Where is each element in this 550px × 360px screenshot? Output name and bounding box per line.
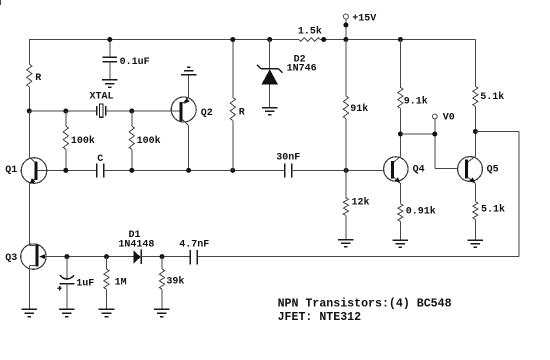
svg-text:Q1: Q1 xyxy=(5,165,17,176)
wire D1 to 4.7nF xyxy=(141,256,190,258)
svg-text:5.1k: 5.1k xyxy=(480,91,504,103)
wire R2 from rail xyxy=(232,40,234,98)
wire cap C to 30nF xyxy=(104,169,285,171)
node rail / 1.5k right xyxy=(321,37,326,42)
wire D2 from rail xyxy=(269,40,271,70)
svg-text:+15V: +15V xyxy=(352,13,376,24)
wire top supply rail left segment xyxy=(29,39,299,41)
node left rail / xtal junction xyxy=(27,109,32,114)
svg-text:1.5k: 1.5k xyxy=(298,25,322,37)
resistor R (no.2) xyxy=(230,98,235,121)
transistor Q5 xyxy=(458,156,483,183)
svg-text:R: R xyxy=(35,73,41,84)
wire 12k to ground xyxy=(345,216,347,240)
node rail / 0.1uF xyxy=(107,37,112,42)
wire Q2 emitter up xyxy=(188,75,190,98)
wire 1M bottom xyxy=(106,289,108,309)
svg-text:C: C xyxy=(97,154,103,165)
svg-text:1N4148: 1N4148 xyxy=(118,239,154,250)
wire 1uF bottom xyxy=(66,284,68,310)
wire xtal line right to Q2 base xyxy=(106,110,180,112)
wire R2 to signal line xyxy=(232,121,234,171)
svg-text:1N746: 1N746 xyxy=(287,63,317,74)
resistor 91k xyxy=(343,96,348,119)
svg-text:Q5: Q5 xyxy=(487,165,499,176)
wire Q1 emitter to Q3 drain xyxy=(28,184,30,245)
wire 0.1uF cap from rail xyxy=(109,40,111,58)
node signal / Q2 collector xyxy=(186,168,191,173)
wire V0 crossbar xyxy=(400,133,434,135)
ground under 1uF xyxy=(59,309,75,316)
svg-text:V0: V0 xyxy=(443,112,455,123)
wire left rail upper (collector Q1 to rail) xyxy=(28,40,30,65)
wire 100k no.1 bottom xyxy=(65,149,67,170)
wire Q1 base to cap C xyxy=(38,169,97,171)
svg-text:12k: 12k xyxy=(352,197,370,209)
svg-text:100k: 100k xyxy=(71,135,95,147)
resistor 1M xyxy=(104,269,109,289)
wire 5.1k no.2 to ground xyxy=(474,219,476,240)
wire left rail to XTAL node xyxy=(28,87,30,111)
wire Q3 source down xyxy=(28,266,30,310)
transistor Q3 (JFET) xyxy=(21,244,46,269)
wire 1M top xyxy=(106,257,108,269)
resistor 9.1k xyxy=(398,87,403,108)
node signal / resistor R2 xyxy=(230,168,235,173)
wire feedback top xyxy=(475,131,519,133)
wire 0.91k to ground xyxy=(399,221,401,240)
svg-text:NPN Transistors:(4) BC548: NPN Transistors:(4) BC548 xyxy=(278,297,452,310)
svg-text:1uF: 1uF xyxy=(76,278,94,289)
resistor 5.1k no.2 xyxy=(473,202,478,220)
node signal / 100k no.2 xyxy=(129,168,134,173)
wire top supply rail right segment xyxy=(320,39,476,41)
svg-text:1M: 1M xyxy=(115,277,127,288)
stray mark top-left corner xyxy=(0,0,2,5)
wire 30nF to Q4 base xyxy=(292,169,384,171)
wire 5.1k no.1 top xyxy=(474,40,476,88)
svg-text:0.91k: 0.91k xyxy=(406,205,436,217)
svg-text:30nF: 30nF xyxy=(276,153,300,164)
terminal V0 xyxy=(432,114,437,168)
transistor Q1 xyxy=(21,157,47,184)
capacitor 4.7nF xyxy=(190,250,197,264)
svg-text:JFET: NTE312: JFET: NTE312 xyxy=(278,311,362,324)
wire 100k no.1 top xyxy=(65,111,67,126)
svg-text:Q4: Q4 xyxy=(413,165,425,176)
wire D2 to ground xyxy=(269,84,271,107)
ground under Q3 xyxy=(22,309,38,316)
svg-text:Q3: Q3 xyxy=(5,253,17,264)
wire 1uF top xyxy=(66,257,68,280)
resistor 1.5k xyxy=(299,38,320,42)
capacitor C xyxy=(97,163,104,177)
capacitor 0.1uF xyxy=(103,57,117,61)
node Q5 collector / feedback xyxy=(473,129,478,134)
wire xtal line left xyxy=(29,110,96,112)
wire 9.1k top xyxy=(399,40,401,88)
svg-text:5.1k: 5.1k xyxy=(481,204,505,216)
node signal / 100k no.1 xyxy=(63,168,68,173)
node gate line / 39k xyxy=(160,254,165,259)
svg-text:0.1uF: 0.1uF xyxy=(120,57,150,68)
wire 39k top xyxy=(161,257,163,269)
capacitor 1uF (polarized) xyxy=(60,275,75,284)
node gate / 1M xyxy=(104,254,109,259)
wire 5.1k no.1 to Q5 collector xyxy=(474,107,476,157)
node rail / 9.1k xyxy=(398,37,403,42)
wire feedback right vertical xyxy=(518,132,520,257)
wire 0.1uF to ground xyxy=(109,62,111,80)
transistor Q2 xyxy=(171,97,196,125)
diode D2 zener 1N746 xyxy=(257,65,282,85)
ground under 12k xyxy=(338,240,354,247)
ground under 5.1k no.2 xyxy=(468,240,484,247)
svg-text:100k: 100k xyxy=(137,135,161,147)
resistor 100k no.1 xyxy=(63,126,68,149)
wire 100k no.2 top xyxy=(131,111,133,126)
node gate / 1uF xyxy=(64,254,69,259)
wire feedback bottom xyxy=(197,256,519,258)
svg-text:4.7nF: 4.7nF xyxy=(179,239,209,250)
svg-text:91k: 91k xyxy=(350,103,368,115)
wire 91k bottom xyxy=(345,119,347,198)
label + of 1uF xyxy=(57,286,61,290)
terminal +15V xyxy=(343,14,348,40)
node xtal / 100k no.2 xyxy=(129,109,134,114)
ground under D2 xyxy=(262,108,278,115)
svg-text:9.1k: 9.1k xyxy=(404,95,428,107)
node rail / R2 xyxy=(230,37,235,42)
wire 9.1k to Q4 collector xyxy=(399,108,401,156)
svg-text:R: R xyxy=(239,108,245,119)
wire Q5 emitter down xyxy=(474,183,476,201)
resistor 39k xyxy=(159,269,164,289)
wire 39k bottom xyxy=(161,289,163,309)
resistor R (left bias) xyxy=(27,64,32,87)
node +15V below terminal xyxy=(343,23,348,28)
node rail / D2 xyxy=(267,37,272,42)
ground under 39k xyxy=(154,309,170,316)
node rail / +15V / 91k xyxy=(343,37,348,42)
crystal XTAL xyxy=(97,104,106,117)
wire Q4 emitter down xyxy=(399,183,401,204)
node xtal / 100k no.1 xyxy=(63,109,68,114)
svg-text:XTAL: XTAL xyxy=(90,92,114,103)
wire Q3 gate line xyxy=(45,256,134,258)
ground under 0.91k xyxy=(393,240,409,247)
transistor Q4 xyxy=(384,157,408,184)
svg-text:39k: 39k xyxy=(166,275,184,287)
ground above Q2 (inverted) xyxy=(181,67,197,74)
ground under 1M xyxy=(99,309,115,316)
resistor 5.1k no.1 xyxy=(473,86,478,106)
wire Q2 collector down xyxy=(188,125,190,170)
resistor 12k xyxy=(343,198,348,216)
node Q4 collector / V0 branch xyxy=(398,132,403,137)
capacitor 30nF xyxy=(285,163,292,177)
ground under 0.1uF xyxy=(102,80,118,87)
wire left rail to Q1 collector xyxy=(28,111,30,157)
wire 91k top xyxy=(345,40,347,96)
wire 100k no.2 bottom xyxy=(131,149,133,170)
node signal / 91k-12k xyxy=(344,168,349,173)
wire V0 to Q5 base xyxy=(435,167,458,169)
diode D1 1N4148 xyxy=(134,250,142,265)
resistor 0.91k xyxy=(398,204,403,222)
resistor 100k no.2 xyxy=(129,126,134,149)
svg-text:Q2: Q2 xyxy=(201,108,213,119)
node V0 / crossbar xyxy=(432,132,437,137)
